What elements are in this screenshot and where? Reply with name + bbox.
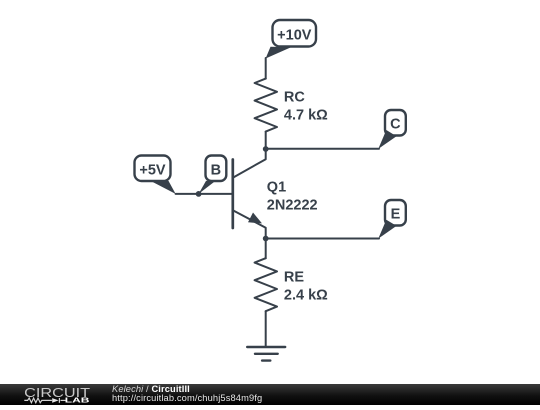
footer bar bbox=[0, 384, 540, 405]
svg-text:+5V: +5V bbox=[139, 163, 166, 179]
svg-text:2.4 kΩ: 2.4 kΩ bbox=[284, 287, 328, 303]
power flag +5V bbox=[135, 156, 176, 194]
transistor Q1 collector lead bbox=[233, 149, 266, 178]
svg-text:+10V: +10V bbox=[277, 28, 312, 44]
svg-text:RC: RC bbox=[284, 90, 305, 106]
wire RE to ground bbox=[265, 311, 267, 346]
wire emitter node to RE bbox=[265, 239, 267, 259]
node B junction dot bbox=[196, 191, 202, 197]
node flag C bbox=[378, 110, 406, 149]
node flag E bbox=[378, 200, 406, 239]
transistor Q1 emitter arrow bbox=[248, 213, 262, 224]
svg-text:LAB: LAB bbox=[65, 396, 90, 405]
wire RC to collector node bbox=[265, 132, 267, 149]
node flag B bbox=[199, 156, 227, 194]
wire base bbox=[176, 193, 233, 195]
footer text line 2 bbox=[112, 393, 262, 403]
wire emitter node to E flag bbox=[266, 238, 379, 240]
node C junction dot bbox=[263, 146, 269, 152]
svg-text:C: C bbox=[390, 117, 401, 133]
svg-text:B: B bbox=[211, 163, 221, 179]
svg-text:http://circuitlab.com/chuhj5s8: http://circuitlab.com/chuhj5s84m9fg bbox=[112, 393, 262, 403]
node E junction dot bbox=[263, 236, 269, 242]
label RC 4.7k bbox=[284, 90, 328, 124]
power flag +10V bbox=[266, 20, 316, 59]
svg-text:Q1: Q1 bbox=[267, 179, 286, 195]
label Q1 2N2222 bbox=[267, 179, 318, 213]
transistor Q1 emitter lead bbox=[233, 210, 266, 238]
footer text line 1 bbox=[112, 384, 190, 394]
ground bbox=[247, 347, 285, 361]
resistor RE bbox=[255, 258, 277, 311]
svg-text:2N2222: 2N2222 bbox=[267, 197, 318, 213]
svg-text:4.7 kΩ: 4.7 kΩ bbox=[284, 107, 328, 123]
wire +10V to RC bbox=[265, 58, 267, 79]
resistor RC bbox=[255, 79, 277, 132]
transistor Q1 base bar bbox=[231, 160, 234, 229]
svg-text:E: E bbox=[391, 207, 401, 223]
CircuitLab logo bbox=[24, 385, 90, 405]
label RE 2.4k bbox=[284, 270, 328, 304]
svg-text:RE: RE bbox=[284, 270, 304, 286]
wire collector node to C flag bbox=[266, 148, 379, 150]
